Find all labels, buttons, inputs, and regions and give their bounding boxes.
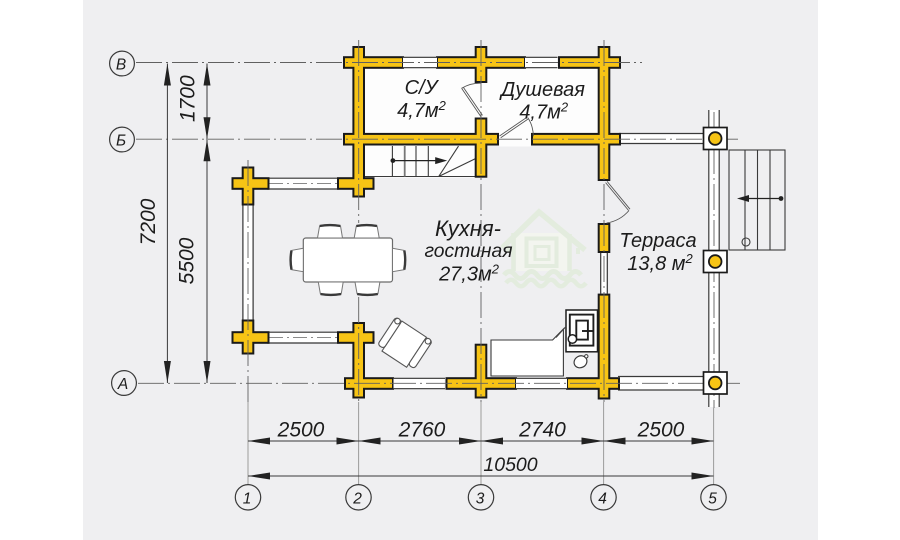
wall B run2 outline — [436, 56, 526, 69]
wall axis3 mid outline — [475, 118, 488, 178]
cross arm axis1 upper outline — [232, 177, 270, 190]
chair bottom-left — [318, 282, 343, 295]
wall A run1 outline — [344, 377, 394, 390]
svg-text:2: 2 — [352, 490, 362, 507]
wall A run2 outline — [446, 377, 518, 390]
bottom dimension row 2 (10500) — [248, 475, 714, 477]
wall axis2 lower outline — [352, 322, 365, 399]
cross stub axis1 upper — [244, 169, 253, 204]
exterior stair — [729, 150, 785, 250]
stair zone floor (white) — [364, 142, 476, 178]
kitchen counter — [491, 329, 563, 376]
cross arm axis1 lower — [234, 333, 268, 342]
wall axis3 mid — [477, 120, 486, 176]
wall B run3 — [560, 58, 619, 67]
svg-text:В: В — [116, 57, 126, 74]
wall axis3 bottom — [477, 346, 486, 397]
wall axis3 top — [477, 48, 486, 81]
chair top-right — [354, 225, 379, 238]
svg-text:гостиная: гостиная — [424, 241, 512, 262]
window in wall A left — [393, 378, 445, 389]
cross stub axis1 upper outline — [242, 167, 255, 206]
wall Б run2 outline — [531, 133, 621, 146]
svg-text:27,3м2: 27,3м2 — [438, 262, 500, 286]
window in wall A right — [516, 378, 568, 389]
svg-text:2760: 2760 — [398, 419, 446, 442]
dimension line 5500 — [204, 139, 211, 161]
wall A run1 — [346, 379, 392, 388]
chair bottom-right — [355, 282, 380, 295]
svg-text:7200: 7200 — [137, 198, 160, 245]
wall axis2 lower — [354, 324, 363, 397]
window band lower (axis1-2) — [267, 332, 340, 343]
kitchen sink — [572, 353, 589, 370]
dimension line 7200 — [166, 64, 168, 384]
cross arm axis2 lower outline — [337, 331, 375, 344]
axis circle 1 — [235, 485, 260, 510]
wall axis4 upper — [600, 48, 609, 179]
axis line 3 — [480, 40, 482, 402]
door terrace (axis4 wall) — [606, 181, 630, 223]
svg-text:Душевая: Душевая — [499, 79, 585, 101]
interior stair — [365, 146, 476, 177]
axis circle Б — [110, 127, 135, 152]
cross arm axis2 lower — [339, 333, 373, 342]
wall axis4 mid — [600, 225, 609, 251]
axis line 1 — [247, 160, 249, 402]
terrace beam along axis 5 — [709, 110, 719, 407]
wall A run3 — [568, 379, 618, 388]
wall axis4 upper outline — [598, 46, 611, 181]
cross arm axis2 upper outline — [337, 177, 375, 190]
terrace beam along axis B — [619, 134, 706, 144]
stove — [556, 310, 598, 352]
svg-text:1: 1 — [243, 490, 252, 507]
cross arm axis1 lower outline — [232, 331, 270, 344]
svg-text:1700: 1700 — [177, 75, 200, 122]
door SU (axis3 wall) — [462, 83, 483, 116]
wall axis3 bottom outline — [475, 344, 488, 399]
axis line B — [136, 62, 642, 64]
wall Б run2 — [533, 135, 619, 144]
terrace post at axis A — [704, 372, 728, 394]
svg-text:5: 5 — [708, 490, 717, 507]
svg-text:Кухня-: Кухня- — [435, 216, 501, 241]
wall B run2 — [438, 58, 524, 67]
svg-text:2500: 2500 — [277, 419, 325, 442]
wall axis2 upper — [354, 48, 363, 196]
wall A run3 outline — [566, 377, 620, 390]
armchair — [376, 317, 433, 371]
window in wall B left — [403, 57, 438, 68]
chair top-left — [318, 225, 343, 238]
svg-text:3: 3 — [476, 490, 485, 507]
terrace beam along axis A — [618, 377, 705, 391]
watermark house logo — [502, 212, 586, 286]
axis line 4 — [603, 40, 605, 402]
svg-text:2500: 2500 — [637, 419, 685, 442]
axis line 5 — [713, 112, 715, 408]
cross stub axis1 lower — [244, 322, 253, 353]
floor through shower door opening — [499, 133, 531, 147]
extension lines to dimension rows — [248, 402, 714, 485]
axis line А — [138, 382, 742, 384]
window in wall B right — [525, 57, 558, 68]
wall B run1 outline — [343, 56, 404, 69]
axis circle 4 — [591, 485, 616, 510]
svg-text:4: 4 — [598, 490, 607, 507]
wall B run3 outline — [558, 56, 621, 69]
wall axis4 mid outline — [598, 223, 611, 253]
svg-text:5500: 5500 — [176, 237, 199, 284]
svg-text:2740: 2740 — [518, 419, 566, 442]
axis circle 2 — [346, 485, 371, 510]
wall axis4 lower outline — [598, 294, 611, 400]
wall Б run1 — [345, 135, 497, 144]
wall axis4 lower — [600, 296, 609, 398]
wall B run1 — [345, 58, 402, 67]
cross arm axis2 upper — [339, 179, 373, 188]
axis circle B — [110, 51, 135, 76]
axis circle 5 — [701, 485, 726, 510]
window band upper (axis1-2) — [267, 178, 340, 189]
axis line Б — [136, 138, 742, 140]
dining table — [303, 238, 392, 282]
door shower (wall Б) — [500, 117, 534, 138]
window in wall axis4 (terrace) — [600, 253, 608, 294]
svg-text:С/У: С/У — [405, 77, 440, 99]
svg-text:10500: 10500 — [483, 454, 537, 476]
terrace post at axis B — [704, 128, 728, 150]
svg-text:Терраса: Терраса — [619, 230, 696, 252]
walls: yellow core — [234, 48, 620, 398]
chair left — [291, 248, 304, 271]
window band left wall (axis1) — [243, 204, 253, 321]
axis circle 3 — [468, 485, 493, 510]
svg-text:13,8 м2: 13,8 м2 — [627, 251, 693, 275]
walls: black outline backing — [232, 46, 622, 400]
axis line 2 — [358, 40, 360, 402]
terrace post middle — [704, 251, 728, 273]
wall axis2 upper outline — [352, 46, 365, 198]
interior stair walk line — [391, 157, 448, 164]
svg-text:Б: Б — [116, 133, 126, 150]
wall Б run1 outline — [343, 133, 499, 146]
axis circle А — [112, 371, 137, 396]
cross stub axis1 lower outline — [242, 320, 255, 355]
chair right — [393, 248, 406, 271]
wall A run2 — [448, 379, 516, 388]
svg-text:А: А — [117, 376, 128, 393]
dimension line 1700 — [206, 64, 208, 384]
room floor SU + shower (white) — [362, 66, 602, 135]
bottom dimension row 1 — [248, 440, 714, 442]
exterior stair walk line — [737, 195, 783, 202]
wall axis3 top outline — [475, 46, 488, 83]
cross arm axis1 upper — [234, 179, 268, 188]
